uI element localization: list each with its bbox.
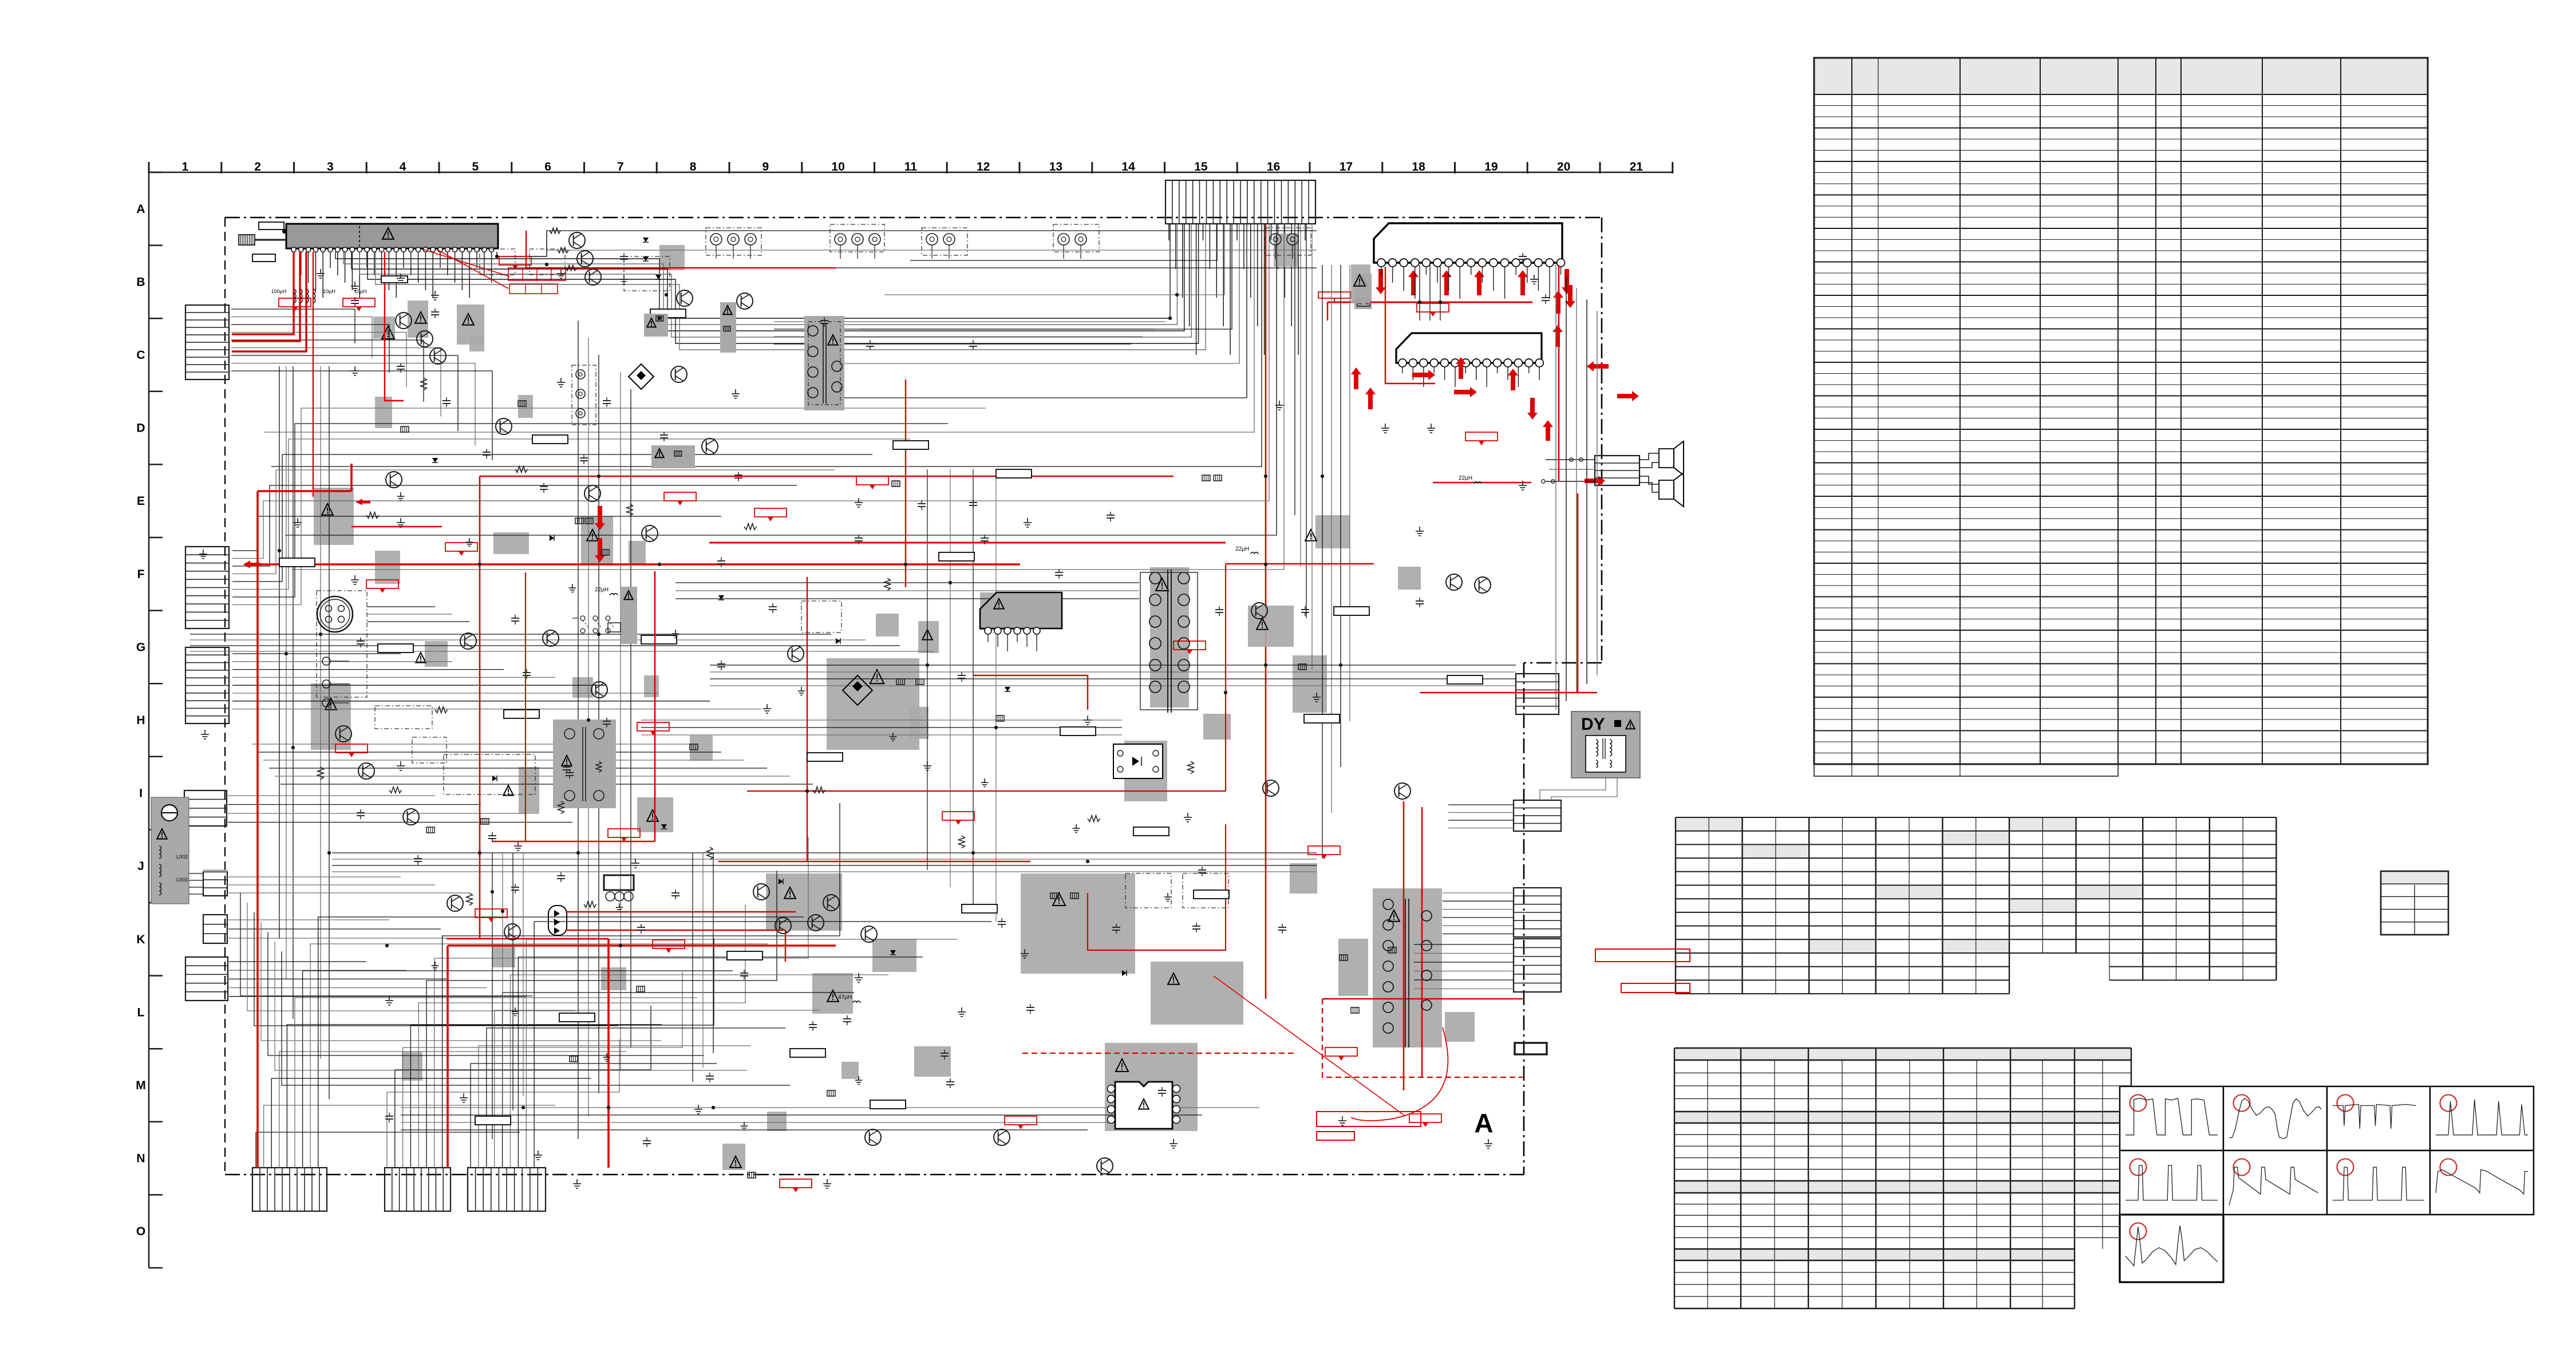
component cluster shading Z49 [876,614,899,636]
component cluster shading Z47 [402,1052,422,1081]
wire bus segment W003 [351,224,1184,331]
transistors Q101-Q129 [335,313,1491,1174]
wire bus segment W084 [295,998,697,1168]
wire bus segment W137 [1448,804,1514,805]
board outline border left (dash-dot) [224,218,226,1175]
wire bus segment W075 [588,338,589,1116]
wire bus segment W078 [630,389,631,1047]
svg-text:K: K [136,933,145,946]
wire bus segment W180 [512,853,513,1110]
connector CN201 bottom [252,1168,327,1211]
red supply wire R19 [447,938,609,939]
wire bus segment W094 [434,837,808,1168]
component cluster shading Z17 [872,939,916,972]
red wide label box 2 [1317,1132,1354,1140]
red supply wire R23 [1558,265,1560,481]
transistors Q201-Q203 with base resistors [550,228,601,285]
svg-text:15: 15 [1194,160,1208,173]
wire bus segment W182 [692,853,693,1082]
wire bus segment W145 [332,865,1317,866]
red pin-assignment grid 2 [509,284,558,294]
component cluster shading Z48 [722,1144,745,1170]
red standby bus y948 [709,542,1226,544]
svg-text:G: G [136,641,145,654]
wire bus segment W134 [1414,971,1514,972]
wire bus segment W030 [231,317,372,358]
waveform scope cell row3 col1 [2120,1215,2223,1282]
wire bus segment W165 [240,893,532,996]
inductor value 47µH [838,994,860,1003]
wire bus segment W089 [395,1006,651,1168]
wire bus segment W171 [282,951,790,1085]
wire bus segment W008 [774,329,1154,330]
wire bus segment W036 [231,363,475,446]
wire bus segment W107 [190,645,900,646]
wire bus segment W158 [189,894,204,895]
wire bus segment W121 [710,665,1516,666]
wire bus segment W059 [228,795,435,796]
component cluster shading Z37 [1351,264,1370,303]
wire bus segment W061 [228,813,527,814]
wire bus segment W102 [518,957,923,1168]
LED/diode array D1501 [548,906,567,935]
red supply wire R06 [258,490,351,492]
wire bus segment W048 [232,439,910,590]
chip resistor network blocks [401,401,1396,1178]
svg-text:4: 4 [400,160,406,173]
wire bus segment W041 [320,366,321,1059]
wire bus segment W001 [335,224,1170,318]
wire bus segment W153 [973,469,974,904]
capacitor scatter group 2 [357,363,1286,1059]
connector CN102 left edge [185,547,229,628]
wire bus segment W140 [1448,828,1514,829]
wire bus segment W028 [497,231,547,256]
bridge rectifier D601 [843,675,872,705]
component shading standby 1 [644,314,668,337]
IC501 pin stub wires [1381,267,1561,299]
component cluster shading Z02 [408,301,428,338]
connector CN106 left edge [203,915,227,943]
wire bus segment W035 [231,355,458,431]
wire bus segment W172 [252,744,698,745]
svg-text:100µH: 100µH [271,288,287,294]
AC line filter block L002/L003 [151,797,189,904]
red supply wire R31 [424,250,509,276]
red wide label box 4 [1621,983,1690,993]
wire bus segment W095 [442,803,840,1168]
component cluster shading Z22 [1290,863,1317,894]
red supply wire R25 [1403,801,1405,1090]
wire bus segment W148 [401,1114,1202,1116]
component cluster shading Z41 [841,1062,859,1079]
wire bus segment W068 [228,938,492,939]
waveform scope cell row2 col4 [2430,1151,2534,1215]
wire bus segment W011 [910,224,1217,260]
wire bus segment W108 [190,651,934,652]
wire bus segment W103 [526,939,957,1168]
top ruler numbers 1-21 [182,160,1643,173]
wire bus segment W101 [511,975,889,1168]
component cluster shading Z28 [1248,606,1294,647]
wire bus segment W012 [884,224,1224,295]
svg-text:20: 20 [1557,160,1570,173]
waveform scope cell row2 col1 [2120,1151,2223,1215]
wire bus segment W099 [495,1010,820,1168]
wire bus segment W163 [641,727,1122,728]
wire bus segment W056 [232,693,658,694]
red supply wire R26 [1421,807,1423,1077]
junction dot at IC001 left pin [283,230,287,234]
capacitor symbols [351,253,1550,1147]
red supply wire R03 [232,252,306,351]
red supply wire R30 [1226,563,1374,565]
waveform scope cell row1 col4 [2430,1086,2534,1151]
warning triangle symbols [322,275,1400,1168]
svg-text:L003: L003 [176,877,188,883]
zener diodes D201-D203 [643,238,661,279]
wire bus segment W025 [547,230,1317,231]
wire bus segment W052 [232,661,452,662]
wire bus segment W169 [268,932,704,1055]
wire bus segment W018 [278,224,1269,501]
wire bus segment W185 [367,606,435,607]
connector CN803 right edge [1514,888,1561,937]
wire bus segment W125 [1443,892,1514,894]
svg-text:J: J [137,860,144,873]
wire bus segment W177 [280,784,813,785]
component cluster shading Z12 [311,683,351,750]
connector CN202 bottom [385,1168,451,1211]
svg-text:6: 6 [544,160,551,173]
wire bus segment W110 [1331,265,1332,813]
wire bus segment W174 [263,760,744,761]
svg-text:11: 11 [904,160,918,173]
wire bus segment W115 [1440,265,1441,321]
wire bus segment W156 [189,880,204,881]
red supply wire R22 [1433,482,1531,484]
red supply wire R05 [385,252,404,401]
parts list table (top right) [1814,58,2428,776]
wire bus segment W183 [702,853,704,1068]
red callout labels [279,256,1498,1192]
connector CN105 left edge [203,872,227,896]
wire bus segment W020 [292,224,1284,570]
component cluster shading Z20 [1105,1043,1198,1131]
red supply wire R27 [807,577,808,861]
svg-text:E: E [137,495,145,508]
svg-text:13: 13 [1049,160,1062,173]
red supply wire R12 [480,476,1174,477]
component cluster shading Z35 [375,551,400,584]
transistor Q602 [737,293,753,309]
connector CN107 left edge [185,957,228,1001]
svg-text:A: A [1474,1108,1493,1138]
wire bus segment W060 [228,804,481,805]
wire bus segment W087 [318,917,804,1168]
ground symbols [199,269,1538,1188]
wire bus segment W010 [774,343,1131,345]
red curved CRT lead [1351,1027,1448,1121]
svg-text:2: 2 [254,160,261,173]
component cluster shading Z11 [1203,714,1231,740]
wire bus segment W039 [286,366,287,979]
wire bus segment W133 [1414,962,1514,963]
red supply wire R14 [526,267,836,268]
wire bus segment W019 [285,224,1277,535]
IC502 pin stub wires [1402,367,1539,387]
wire bus segment W071 [229,978,447,979]
wire bus segment W092 [418,904,745,1168]
wire bus segment W186 [367,614,452,615]
connector CN804 right edge [1514,939,1561,992]
wire bus segment W015 [807,224,1247,398]
svg-text:F: F [137,568,145,581]
wire bus segment W167 [254,912,618,1026]
wire bus segment W124 [710,685,1516,686]
component cluster shading Z39 [469,337,484,351]
board outline border top (dash-dot) [225,217,1602,219]
wire bus segment W085 [303,971,733,1168]
wire bus segment W179 [502,853,503,1125]
wire bus segment W136 [1414,989,1514,990]
svg-text:14: 14 [1121,160,1135,173]
component shading standby 2 [720,302,736,353]
svg-text:5: 5 [472,160,479,173]
svg-text:I: I [139,787,143,800]
component cluster shading Z31 [581,516,613,566]
wire bus segment W074 [578,321,579,1139]
wire bus segment W017 [271,224,1262,466]
svg-text:1: 1 [182,160,189,173]
red signal arrows below IC501 [1376,269,1572,295]
wire bus segment W006 [376,224,1206,350]
svg-text:12: 12 [977,160,990,173]
wire bus segment W173 [258,752,721,753]
wire bus segment W081 [271,1078,591,1168]
component cluster shading Z14 [519,767,539,814]
wire bus segment W070 [229,970,406,971]
line transformer T202 [553,719,616,808]
wire bus segment W175 [269,768,767,769]
wire bus segment W098 [487,1028,785,1168]
wire bus segment W062 [228,822,572,823]
wire bus segment W135 [1414,979,1514,981]
red label box audio supply [1318,292,1351,302]
wire bus segment W164 [641,734,1122,736]
wire bus segment W114 [1429,265,1431,321]
diode scatter group 2 [432,458,1127,976]
wire bus segment W032 [231,333,406,388]
red supply wire R32 [437,250,508,288]
MOSFET Q603 [671,366,687,382]
transistor Q604 [591,682,607,698]
wire bus segment W168 [261,922,661,1041]
red supply wire R33 [1214,976,1405,1116]
board outline border bottom (dash-dot) [225,1174,1524,1176]
svg-text:D: D [136,422,145,435]
red bus left arrow [243,560,260,568]
wire bus segment W096 [471,1064,717,1168]
wire bus segment W038 [279,366,280,939]
wire bus segment W053 [232,669,504,670]
svg-text:N: N [136,1152,145,1165]
voltage chart table (middle right) [1676,817,2276,994]
bridge rectifier D201 [629,364,654,389]
wire bus segment W106 [190,639,866,641]
svg-text:DY: DY [1581,715,1605,734]
component cluster shading Z19 [1021,873,1135,974]
svg-text:19: 19 [1484,160,1498,173]
wire bus segment W079 [256,1132,520,1168]
red down arrows standby [595,506,605,562]
wire bus segment W123 [710,678,1516,679]
ground scatter group 2 [397,492,1172,1130]
component cluster shading Z06 [980,592,1032,630]
wire bus segment W072 [229,987,487,989]
wire bus segment W051 [232,653,401,654]
deflection yoke block DY [1571,711,1640,778]
wire bus segment W126 [1443,900,1514,902]
red supply wire R13 [526,231,527,268]
fuse PS501 with warning label [1354,274,1372,309]
svg-text:L002: L002 [176,854,188,860]
wire bus segment W178 [492,853,493,1139]
red supply wire R18 [448,944,836,947]
board outline border right jog (dash-dot) [1524,662,1602,664]
wire bus segment W151 [927,469,928,870]
red loop vertical x918 [525,572,526,841]
wire bus segment W024 [1311,224,1313,670]
red drive line 1 [566,911,796,912]
svg-text:C: C [136,349,145,362]
wire bus segment W021 [1294,224,1295,515]
connector CN101 left edge [185,305,229,379]
left coordinate ruler line with ticks [149,172,163,1268]
red supply wire R07 [350,464,353,491]
relay RY001 [604,875,634,911]
red dashed feedback line [1322,999,1523,1077]
wire bus segment W046 [232,470,835,574]
component cluster shading Z01 [373,317,395,339]
connector CN801 right edge [1516,674,1559,714]
waveform scope cell row1 col3 [2327,1086,2430,1151]
red supply wire R09 [256,491,259,1168]
red arrows around audio section [1351,285,1639,486]
wire bus segment W159 [675,582,1139,583]
IC IC501 audio amplifier [1374,223,1565,267]
IC IC1501 vertical output [1108,1082,1180,1129]
svg-text:22µH: 22µH [595,587,609,593]
component cluster shading Z50 [492,944,515,967]
component cluster shading Z40 [767,1112,787,1131]
red loop horizontal y1470 [492,841,655,843]
red supply wire R10 [260,563,1020,566]
wire bus segment W100 [503,993,854,1168]
flyback transformer T801 [1383,899,1432,1047]
svg-text:10: 10 [831,160,844,173]
board outline border right lower (dash-dot) [1523,663,1525,1175]
component cluster shading Z04 [1274,234,1298,267]
svg-text:22µH: 22µH [1235,546,1249,552]
wire bus segment W045 [232,485,797,566]
speaker SP501 and connector [1542,441,1684,507]
component cluster shading Z30 [1315,515,1350,548]
IC001 pin stubs [294,252,492,298]
wire bus segment W034 [231,348,441,417]
wire bus segment W132 [1414,953,1514,954]
wire bus segment W083 [287,1025,662,1168]
relay contact group S601 [572,616,621,633]
svg-text:21: 21 [1630,160,1643,173]
component cluster shading Z33 [493,532,529,554]
wire bus segment W043 [232,516,721,551]
connector CN104 left edge [184,790,227,826]
IC IC001 main jungle IC bar [286,224,498,252]
wire bus segment W076 [598,355,599,1093]
wire bus segment W016 [264,224,1254,432]
standby transformer T201 [804,316,844,410]
red supply wire R36 [1088,824,1226,950]
wire bus segment W176 [275,776,790,777]
wire bus segment W040 [293,366,294,1019]
red wide label box 3 [1595,949,1690,962]
inductors L101-L104 with value labels [271,288,367,303]
wire bus segment W077 [620,372,621,1070]
red supply wire R16 [607,939,610,1168]
IC IC502 audio processor [1396,333,1543,367]
component cluster shading Z07 [1150,567,1189,707]
component cluster shading Z24 [1338,939,1368,996]
wire bus segment W067 [228,928,441,930]
waveform scope cell row1 col1 [2120,1086,2223,1151]
svg-text:18: 18 [1412,160,1425,173]
red supply wire R01 [232,252,294,334]
wire bus segment W112 [1349,265,1350,721]
red supply wire R15 [905,379,906,587]
svg-text:47µH: 47µH [838,994,852,1001]
svg-text:10µH: 10µH [323,288,335,294]
red supply wire R24 [1322,998,1523,999]
svg-text:9: 9 [762,160,769,173]
wire bus segment W049 [232,424,948,597]
transformer T601 power transformer [1140,570,1198,713]
wire bus segment W013 [859,224,1232,329]
CN501 lead-in lines from top [1169,224,1305,355]
connector CN805 right edge small black [1515,1043,1547,1054]
top coordinate ruler line with ticks [149,162,1673,173]
wire junction dots [278,255,1442,1109]
component cluster shading Z38 [659,245,685,270]
connector CN103 left edge [185,647,229,724]
label box below IC001 [252,254,275,262]
wire bus segment W170 [275,942,747,1070]
wire bus segment W109 [1322,265,1323,859]
wire bus segment W055 [232,685,607,686]
white reference label boxes [279,276,1483,1125]
svg-text:H: H [136,714,145,727]
component cluster shading Z43 [518,395,533,418]
red supply wire R02 [232,252,300,341]
component cluster shading Z25 [1445,1012,1475,1042]
svg-text:22µH: 22µH [1459,475,1472,481]
wire bus segment W131 [1414,944,1514,945]
wire bus segment W009 [774,336,1143,337]
red supply wire R11 [479,476,481,939]
red supply wire R20 [1420,692,1597,694]
svg-text:L: L [137,1006,145,1019]
component cluster shading Z32 [629,541,646,564]
